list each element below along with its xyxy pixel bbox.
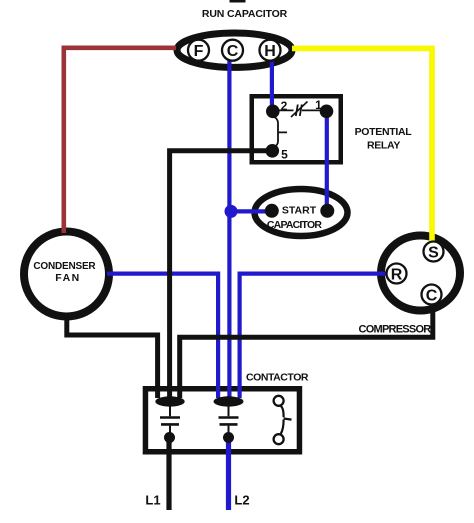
compressor terminal C [422, 285, 442, 305]
svg-text:C: C [227, 43, 239, 60]
svg-text:CONTACTOR: CONTACTOR [246, 372, 309, 384]
contactor left pole contact symbol [169, 404, 171, 433]
wire: contactor L1 lead (black) [166, 440, 171, 510]
wire: contactor L2 lead (blue) [226, 440, 231, 510]
potential relay outline [252, 96, 341, 162]
relay coil [273, 117, 287, 148]
start capacitor outline [255, 189, 348, 236]
relay terminal 1 [320, 105, 334, 119]
relay contact symbol [279, 109, 320, 111]
svg-text:L1: L1 [145, 493, 160, 508]
contactor right pole terminal blob [214, 396, 244, 406]
svg-text:RELAY: RELAY [367, 140, 400, 152]
svg-text:POTENTIAL: POTENTIAL [355, 126, 413, 138]
wire: run capacitor H to relay terminal 2 (blue) [270, 58, 274, 112]
svg-text:CAPACITOR: CAPACITOR [267, 219, 322, 231]
relay terminal 2 [266, 105, 280, 119]
wire: condenser fan to contactor (blue) [107, 274, 218, 398]
top crop artifact bar [230, 0, 246, 3]
svg-text:H: H [264, 43, 276, 60]
svg-text:C: C [426, 287, 438, 304]
contactor coil switch symbol [274, 396, 284, 406]
contactor left pole lower terminal [164, 432, 175, 443]
start capacitor right terminal [320, 204, 334, 218]
svg-text:L2: L2 [234, 493, 249, 508]
svg-text:F: F [194, 43, 204, 60]
svg-text:START: START [282, 205, 317, 217]
svg-text:COMPRESSOR: COMPRESSOR [359, 324, 432, 336]
wire: compressor C to contactor (black) [180, 300, 433, 398]
svg-text:RUN CAPACITOR: RUN CAPACITOR [202, 8, 288, 20]
compressor terminal R [387, 264, 407, 284]
wire: junction to start capacitor left terminal (blue) [229, 209, 268, 213]
terminal C (run capacitor) [222, 40, 243, 61]
contactor outline [145, 389, 299, 452]
start capacitor left terminal [265, 204, 279, 218]
node: blue junction [225, 205, 238, 218]
svg-text:FAN: FAN [55, 272, 81, 284]
svg-text:S: S [428, 244, 439, 261]
contactor left pole terminal blob [155, 396, 184, 406]
contactor right pole lower terminal [223, 432, 234, 443]
wire: run capacitor F to condenser fan (dark red) [64, 48, 176, 233]
wire: run capacitor H to compressor S (yellow) [292, 48, 432, 247]
svg-text:5: 5 [281, 147, 288, 161]
compressor terminal S [424, 242, 444, 262]
svg-text:CONDENSER: CONDENSER [33, 261, 96, 272]
compressor outline [381, 236, 460, 311]
svg-text:R: R [391, 266, 403, 283]
relay terminal 5 [266, 144, 280, 158]
wire: condenser fan bottom to contactor (black) [67, 315, 158, 398]
wire: relay terminal 5 to contactor (black) [170, 151, 266, 398]
run capacitor outline [177, 33, 292, 67]
wire: relay terminal 1 to start capacitor (blue) [325, 112, 329, 210]
terminal H [260, 40, 281, 61]
terminal F [188, 40, 209, 61]
contactor right pole contact symbol [228, 404, 230, 433]
condenser fan outline [24, 232, 109, 317]
wire: contactor to compressor R (blue) [240, 274, 389, 398]
wire: run capacitor C down to contactor (blue) [227, 58, 231, 398]
